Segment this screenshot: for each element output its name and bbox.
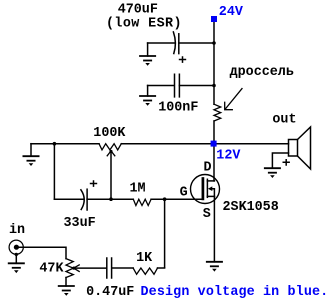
resistor R2 1M zigzag (133, 199, 151, 205)
speaker LS1 cone (298, 127, 311, 169)
svg-text:0.47uF: 0.47uF (86, 285, 134, 300)
svg-text:33uF: 33uF (64, 216, 96, 231)
svg-text:2SK1058: 2SK1058 (223, 200, 279, 215)
capacitor C1 470uF left wire (148, 42, 175, 44)
svg-text:S: S (203, 207, 211, 222)
svg-text:in: in (9, 223, 25, 238)
capacitor C1 470uF straight plate (178, 34, 180, 54)
wire C3 to 1M (87, 198, 133, 200)
wire source down to ground (213, 196, 215, 261)
node 24V supply rail top wire (213, 22, 215, 105)
transistor Q1 channel bar (206, 179, 208, 197)
wire C1 to rail (179, 42, 214, 44)
junction dot wiper-gate line (109, 197, 113, 201)
wire 12V node to speaker (214, 143, 289, 145)
svg-text:1K: 1K (136, 251, 153, 266)
ground for C1 stub (147, 43, 149, 56)
capacitor C2 100nF left wire (148, 85, 174, 87)
wire input to 47K top (16, 247, 66, 258)
potentiometer R4 47K wiper arrowhead (74, 265, 80, 272)
svg-text:100nF: 100nF (158, 100, 198, 115)
transistor Q1 body arrow stub (212, 189, 215, 197)
capacitor C1 470uF curved plate (173, 32, 175, 54)
junction dot C1-rail (212, 41, 216, 45)
junction dot left bias node (53, 142, 57, 146)
transistor Q1 body arrowhead (208, 186, 212, 191)
ground bias left stub (30, 144, 32, 157)
transistor Q1 gate bar (202, 179, 205, 199)
wire 0.47uF to 1K (112, 267, 133, 269)
inductor choke L1 zigzag (214, 104, 221, 121)
potentiometer R1 100K zigzag (99, 144, 121, 150)
svg-text:47K: 47K (39, 262, 64, 277)
svg-text:(low ESR): (low ESR) (106, 17, 182, 32)
ground input stub (15, 255, 17, 264)
svg-text:12V: 12V (216, 148, 241, 163)
wire 1M to gate (151, 198, 203, 200)
node 24V blue square (211, 16, 217, 22)
node 12V blue square (211, 141, 217, 147)
wire 1K right segment (158, 267, 165, 269)
svg-text:Design voltage in blue.: Design voltage in blue. (141, 285, 329, 300)
junction dot wiper arrow tip (109, 150, 112, 153)
potentiometer R4 47K zigzag (66, 259, 73, 278)
transistor Q1 circle (191, 175, 220, 204)
plus sign speaker (283, 159, 290, 166)
wire bias top line 12V node to left (31, 143, 214, 145)
junction dot 47K wiper arrow tip (72, 267, 75, 270)
wire left node vertical (53, 144, 55, 200)
svg-text:470uF: 470uF (118, 2, 158, 17)
arrow to choke (225, 89, 242, 110)
plus sign C3 (90, 180, 97, 187)
ground G3 (bias left) (23, 156, 40, 166)
ground G5 (47K) (58, 286, 75, 296)
wire C2 to rail (179, 85, 214, 87)
ground 47K stub (65, 278, 67, 287)
svg-text:1M: 1M (130, 181, 146, 196)
wire 47K wiper to 0.47uF (74, 267, 106, 269)
potentiometer R1 wiper arrowhead (107, 151, 115, 156)
connector J1 center pin dot (14, 245, 19, 250)
wire choke to 12V node and drain (213, 121, 215, 181)
capacitor C3 33uF curved plate (81, 190, 84, 210)
ground for C2 stub (147, 86, 149, 97)
connector J1 input circle (9, 240, 23, 254)
capacitor C4 0.47uF plates (107, 258, 112, 278)
capacitor C3 33uF straight plate (86, 189, 88, 210)
junction dot C2-rail (212, 84, 216, 88)
junction dot gate-1K node (163, 197, 167, 201)
resistor R3 1K zigzag (133, 268, 157, 274)
svg-text:out: out (272, 112, 296, 127)
ground G7 (source) (206, 262, 223, 272)
ground G1 (470uF) (139, 56, 156, 66)
wire lower bias line left (54, 198, 83, 200)
svg-text:G: G (180, 186, 188, 201)
connector J1 sleeve dot (15, 253, 18, 256)
svg-text:D: D (204, 161, 212, 176)
speaker LS1 rectangle (289, 140, 298, 157)
ground G6 (speaker) (264, 168, 281, 178)
svg-text:100K: 100K (93, 126, 126, 141)
svg-text:дроссель: дроссель (230, 65, 294, 80)
transistor Q1 drain stub (207, 180, 214, 182)
svg-text:24V: 24V (219, 5, 244, 20)
ground G2 (100nF) (139, 96, 156, 106)
potentiometer R1 wiper wire (110, 151, 112, 199)
transistor Q1 source stub (207, 195, 214, 197)
wire gate node down to 1K (164, 199, 166, 267)
capacitor C2 100nF plates (175, 74, 180, 97)
ground G4 (input) (8, 263, 25, 273)
plus sign C1 (179, 56, 186, 63)
wire speaker bottom to ground (272, 153, 288, 168)
